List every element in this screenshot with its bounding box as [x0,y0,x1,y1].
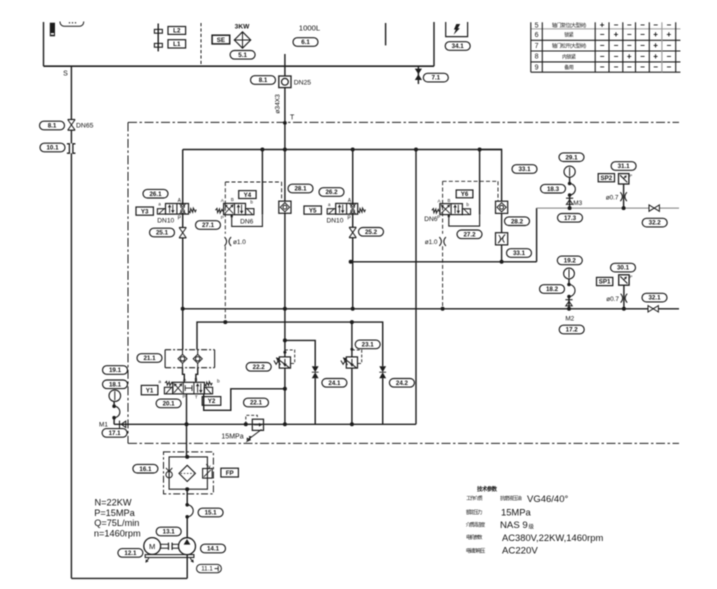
oval 33.1 (lower) [507,249,532,258]
svg-text:5: 5 [535,22,539,29]
wire suction bottom [71,577,187,579]
oval 22.2 [246,363,271,372]
svg-text:32.1: 32.1 [648,295,661,302]
measuring coupling M1 [119,421,121,428]
svg-text:26.2: 26.2 [325,189,338,196]
svg-text:+: + [627,52,632,61]
relief valve 23.1 [346,357,357,368]
air filter 34.1 [446,22,468,37]
wire bus to Y5 [352,150,354,204]
wire relief 22.2 down [284,368,286,424]
switch box SP2 [598,174,614,182]
svg-text:−: − [666,21,671,30]
svg-text:21.1: 21.1 [143,355,156,362]
oval 31.1 [611,162,636,171]
svg-text:12.1: 12.1 [124,550,137,557]
oval Y4 box [239,191,256,199]
oval 26.2 [319,188,344,197]
svg-text:−: − [666,41,671,50]
solenoid box Y3 [136,207,153,215]
oval 22.1 [244,398,269,407]
oval 18.3 [541,184,566,193]
svg-text:1000L: 1000L [299,24,321,33]
svg-text:介质清洁度: 介质清洁度 [466,522,485,529]
shutoff valve 32.1 [648,306,653,312]
oval 25.2 [359,228,384,237]
svg-text:ø0.7: ø0.7 [606,296,619,303]
svg-text:M2: M2 [565,316,574,323]
wire hose to pump [186,517,188,538]
wire P to M1 rail [186,394,188,424]
svg-text:−: − [640,41,645,50]
wire bus to Y4 P-box [261,150,263,215]
pressure switch SP1 [619,275,629,285]
motor 12.1 [144,538,161,555]
svg-text:b: b [217,379,220,385]
svg-text:−: − [627,30,632,39]
oval 13.1 [156,527,181,536]
wire suction upper [70,66,72,119]
junction pilot 23.1 [350,348,353,351]
svg-text:b: b [250,200,253,205]
svg-text:8.1: 8.1 [48,123,57,130]
measuring coupling M2 [568,297,570,309]
svg-text:−: − [627,41,632,50]
svg-text:N=22KW: N=22KW [95,498,132,508]
check valve 28.2 [496,201,508,213]
junction T-line [283,387,287,391]
oval 28.1 [288,184,313,193]
pilot dashed Y4 down [224,246,226,322]
level gauge black mark [50,23,55,37]
svg-text:a: a [158,380,161,385]
svg-text:P: P [221,215,224,220]
svg-text:+: + [666,30,671,39]
oval 23.1 [355,340,380,349]
oval 17.1 [102,429,127,438]
valve Y3 spring [189,208,197,213]
svg-text:27.2: 27.2 [463,231,476,238]
svg-text:NAS 9: NAS 9 [500,520,528,531]
oval 5.1 [230,51,255,60]
oval 28.2 [505,217,530,226]
svg-text:13.1: 13.1 [163,529,176,536]
wire throttle box to bus2 [501,245,503,262]
svg-text:6: 6 [535,32,539,39]
svg-text:33.1: 33.1 [518,166,531,173]
wire check 24.2 down [382,378,384,424]
level switch contact L1 [154,43,162,47]
svg-text:8.1: 8.1 [259,77,268,84]
svg-text:+: + [653,52,658,61]
svg-text:P: P [437,215,440,220]
oval 19.2 [557,256,582,265]
manifold boundary left (dash-dot) [127,122,129,443]
level switch stem [157,24,159,52]
filter element 16.1 [179,465,195,481]
shaft coupling 13.1 [161,543,169,545]
pilot dashed Y6 down [442,246,444,308]
wire top bus [183,149,502,151]
junction SP1 on M2 rail [622,307,626,311]
svg-text:M: M [149,542,155,551]
valve Y6 solenoid [462,209,470,215]
svg-text:VG46/40°: VG46/40° [527,494,568,505]
svg-text:33.1: 33.1 [513,250,526,257]
svg-text:DN10: DN10 [157,217,174,224]
pilot dashed box Y4 [225,181,281,183]
filter unit boundary (dash-dot) [164,452,214,494]
wire Y3-line to block [182,309,184,350]
wire bus2 riser to M3 line [536,208,538,262]
svg-text:B: B [448,198,451,203]
orifice ø0.7 (SP2) [620,192,622,201]
svg-text:ø34X3: ø34X3 [275,94,282,114]
junction dots rail2 [223,320,227,324]
wire pump to suction [186,555,188,579]
svg-text:B: B [231,197,234,202]
wire check 28.1 down [284,213,286,309]
svg-text:−: − [666,52,671,61]
svg-text:技术参数: 技术参数 [477,485,498,493]
relief valve 15MPa (22.1) [252,419,263,430]
svg-text:B: B [195,377,198,382]
oval 18.2 [540,285,565,294]
svg-text:15MPa: 15MPa [501,507,531,518]
svg-text:L2: L2 [173,28,181,35]
valve Y4 output box [232,215,263,227]
svg-text:6.1: 6.1 [301,39,310,46]
hose 18.2 [567,283,571,287]
clipped oval label (top) [60,22,84,27]
manifold boundary top (dash-dot) [128,121,679,123]
svg-text:轴门复位(大型树): 轴门复位(大型树) [552,22,587,29]
oval Y6 box [456,190,473,198]
pilot dashed box Y6 [443,180,498,182]
block 21.1 (dual pilot check) [165,349,215,351]
tank outline [43,22,45,66]
switch box SP1 [597,277,613,285]
svg-text:14.1: 14.1 [207,546,220,553]
prop valve left spring+solenoid [165,381,173,385]
svg-text:Y5: Y5 [309,207,317,214]
svg-text:Y2: Y2 [208,398,216,405]
wire bus corner to check 28.2 [480,150,502,202]
svg-text:24.1: 24.1 [328,380,341,387]
wire M2 rail [183,308,679,310]
oval 34.1 [445,42,470,51]
wire SP1 stem [623,285,625,309]
svg-text:+: + [653,30,658,39]
oval 8.1 (return) [251,76,276,85]
oval 27.2 [457,230,482,239]
pressure gauge M1 [109,390,121,402]
hose 18.3 [568,182,572,186]
valve V27.1 body (Y4) [224,203,246,214]
base plate 11.1 [145,555,194,558]
svg-text:ø0.7: ø0.7 [606,195,619,202]
svg-text:28.2: 28.2 [511,218,524,225]
svg-text:P: P [630,274,633,279]
check element A in 21.1 [178,354,187,363]
hose 15.1 [185,503,189,507]
oval 8.1 (suction) [40,121,65,130]
solenoid box Y1 [141,385,158,394]
oval 21.1 [137,354,162,363]
pressure gauge 29.1 [564,166,575,177]
valve V27.2 body (Y6) [440,204,463,215]
svg-text:−: − [614,41,619,50]
svg-text:内锁紧: 内锁紧 [562,53,576,60]
level switch contact L2 [154,29,162,33]
svg-text:−: − [600,41,605,50]
svg-text:24.2: 24.2 [396,380,409,387]
svg-text:29.1: 29.1 [565,154,578,161]
wire gauge M1 stem [113,402,115,407]
valve Y4 spring [215,208,223,213]
svg-text:AC220V: AC220V [502,546,538,557]
oval 24.1 [322,379,347,388]
svg-text:17.1: 17.1 [109,430,122,437]
valve Y3 solenoid [157,209,165,214]
svg-text:Y1: Y1 [146,387,154,394]
wire bus to check 28.1 [284,150,286,202]
svg-text:S: S [63,70,68,77]
orifice ø0.7 (SP1) [621,294,623,303]
svg-text:电机参数: 电机参数 [466,534,482,541]
svg-text:18.1: 18.1 [109,381,122,388]
svg-text:ø1.0: ø1.0 [425,239,438,246]
oval 15.1 [198,508,223,517]
svg-text:26.1: 26.1 [149,191,162,198]
oval 7.1 [423,73,448,82]
svg-text:+: + [653,41,658,50]
throttle valve 25.2 [349,226,356,228]
breather valve 7.1 [417,66,419,84]
svg-text:−: − [640,30,645,39]
junction dots bus2 [349,260,353,264]
svg-text:18.2: 18.2 [546,286,559,293]
svg-text:T: T [290,115,295,122]
svg-text:7: 7 [535,43,539,50]
wire throttle 25.1 down [182,238,184,309]
oval 19.1 [103,366,128,375]
pump 14.1 [179,538,196,555]
svg-text:31.1: 31.1 [618,163,631,170]
wire M1 bottom rail [114,423,416,425]
svg-text:−: − [653,21,658,30]
svg-text:DN6: DN6 [240,219,254,226]
svg-text:电磁铁电压: 电磁铁电压 [466,548,485,555]
svg-text:工作介质: 工作介质 [466,495,482,502]
svg-text:ø1.0: ø1.0 [233,239,246,246]
svg-text:−: − [600,30,605,39]
oval 11.1 [197,564,222,572]
svg-text:25.2: 25.2 [365,229,378,236]
svg-text:−: − [614,52,619,61]
wire Y3 to throttle [182,214,184,227]
oval 30.1 [611,263,636,272]
svg-text:−: − [600,52,605,61]
wire throttle 25.2 down [352,238,354,309]
svg-text:DN10: DN10 [327,217,344,224]
svg-text:22.1: 22.1 [250,400,263,407]
svg-text:锁紧: 锁紧 [564,31,574,38]
clogging indicator [203,469,213,479]
junction dots on M2 rail [181,307,185,311]
svg-text:11.1: 11.1 [201,566,213,573]
svg-text:M1: M1 [99,421,108,428]
wire branch to check 24.1 [285,340,315,366]
bypass check valve [166,471,172,477]
wire hose to rail M1 [113,418,115,425]
wire 28.2 to throttle box [501,213,503,232]
svg-text:25.1: 25.1 [156,230,169,237]
wire filter to hose [186,489,188,505]
ball valve DN25 [279,76,291,88]
svg-text:轴门松开(大型树): 轴门松开(大型树) [552,42,587,49]
tank internal partition (dashed) [200,23,202,66]
throttle valve 25.1 [179,227,186,229]
svg-text:28.1: 28.1 [294,186,307,193]
svg-text:FP: FP [226,470,234,477]
svg-text:b: b [466,202,469,207]
svg-text:+: + [614,30,619,39]
svg-text:3KW: 3KW [235,23,250,30]
wire below DN65 [70,130,72,143]
svg-text:级: 级 [529,523,535,531]
svg-text:16.1: 16.1 [139,466,152,473]
svg-text:−: − [614,63,619,72]
svg-text:抗磨液压油: 抗磨液压油 [500,495,522,502]
wire block A to valve [183,368,185,383]
svg-text:5.1: 5.1 [238,52,247,59]
oval 12.1 [118,549,143,558]
svg-text:−: − [614,21,619,30]
oval 14.1 [201,544,226,553]
oval 27.1 [196,221,221,230]
wire gauge 19.2 stem [568,279,570,285]
svg-text:−: − [627,63,632,72]
svg-text:20.1: 20.1 [163,401,176,408]
wire bus to Y6 P-box [479,150,481,215]
wire gauge 29.1 stem [569,177,571,183]
svg-text:−: − [653,63,658,72]
svg-text:27.1: 27.1 [202,222,215,229]
svg-text:SP1: SP1 [599,279,611,286]
svg-text:Y4: Y4 [244,192,252,199]
svg-text:7.1: 7.1 [431,75,440,82]
svg-text:L1: L1 [173,41,181,48]
wire rail2 [197,322,383,366]
wire tank to DN25 valve [284,54,286,76]
wire DN25 to T node [284,88,286,150]
oval 26.1 [143,189,168,198]
valve Y5 spring [358,208,366,213]
svg-text:22.2: 22.2 [253,364,266,371]
oval 20.1 [156,399,181,408]
svg-text:34.1: 34.1 [452,43,465,50]
svg-text:P: P [182,394,185,399]
svg-text:备用: 备用 [564,64,574,71]
junction SP2 on M3 line [622,206,626,210]
wire bus2 (b-side header) [351,261,537,263]
svg-text:n=1460rpm: n=1460rpm [94,529,141,539]
shutoff valve 32.2 [649,205,654,211]
wire M3 outlet line [537,207,679,209]
solenoid box Y5 [304,206,321,214]
svg-text:−: − [640,63,645,72]
svg-text:−: − [640,21,645,30]
junction branch 24.1 [283,338,287,342]
valve V25.2 body (Y5) [336,203,358,214]
svg-text:额定压力: 额定压力 [466,509,482,516]
oval 17.2 [559,325,584,334]
valve V25.1 body (Y3) [166,204,189,215]
solenoid sequence table [531,28,681,30]
pressure switch SP2 [619,174,629,184]
svg-text:P=15MPa: P=15MPa [94,508,135,518]
wire suction lower [70,153,72,578]
oval 33.1 (upper) [512,165,537,174]
svg-text:DN25: DN25 [294,80,312,87]
throttle box 33.1 [496,233,508,245]
svg-text:9: 9 [535,64,539,71]
svg-text:Y6: Y6 [461,191,469,198]
svg-text:8: 8 [535,54,539,61]
wire into filter [186,452,188,457]
wire Y5-line rail2 to relief 23.1 [351,322,353,357]
svg-text:−: − [600,63,605,72]
svg-text:15MPa: 15MPa [221,433,243,440]
svg-text:18.3: 18.3 [547,186,560,193]
check element B in 21.1 [193,354,202,363]
manifold boundary bottom (dash-dot) [128,442,679,444]
prop valve 20.1 body [173,382,205,394]
label box L1 [168,40,186,48]
svg-text:−: − [627,21,632,30]
svg-text:19.1: 19.1 [109,367,122,374]
wire Y5 to throttle [352,214,354,227]
wire bus to bottom rail (T return) [415,150,417,425]
svg-text:Q=75L/min: Q=75L/min [94,518,139,528]
wire T to relief line [204,389,285,411]
svg-text:AC380V,22KW,1460rpm: AC380V,22KW,1460rpm [502,532,603,543]
svg-text:SE: SE [217,37,225,44]
wire block B to valve [196,368,198,383]
svg-text:−: − [640,52,645,61]
svg-text:M3: M3 [573,200,582,207]
oval 10.1 [40,143,65,152]
wire rail to relief 22.2 [284,309,286,357]
temp sensor box SE [212,35,230,44]
svg-text:17.2: 17.2 [566,327,579,334]
svg-text:DN65: DN65 [76,123,94,130]
prop valve right spring+solenoid [204,382,212,386]
junction dots bottom rail [185,422,189,426]
oval 17.3 [558,214,583,223]
wire relief 23.1 down [351,368,353,424]
check valve 24.2 [379,366,386,372]
pressure gauge 19.2 [564,268,575,279]
solenoid box Y2 [202,397,221,406]
svg-text:30.1: 30.1 [617,265,630,272]
oval 32.2 [642,218,667,227]
wire SP2 stem [623,184,625,208]
gate valve DN65 [68,119,75,121]
oval 6.1 [293,38,318,47]
svg-text:32.2: 32.2 [649,220,662,227]
